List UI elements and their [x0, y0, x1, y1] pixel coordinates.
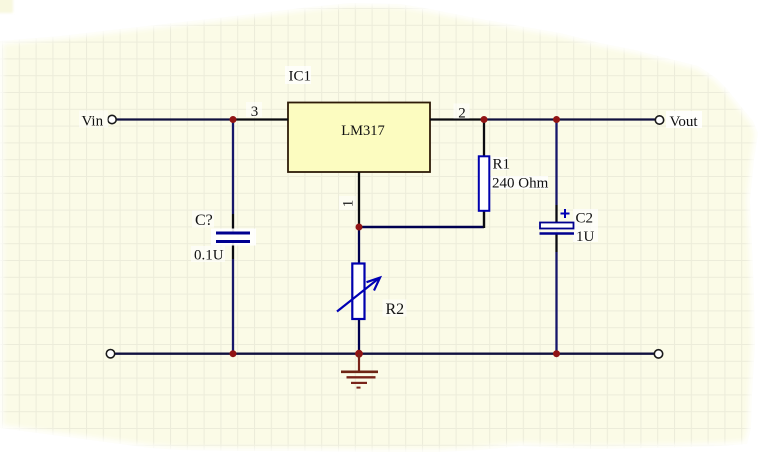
wire C2 branch vertical: [555, 120, 557, 206]
svg-text:Vout: Vout: [670, 114, 699, 130]
pin number 1 (rotated): [339, 196, 357, 210]
junction node B (pin2/R1): [481, 116, 488, 123]
svg-text:0.1U: 0.1U: [194, 248, 224, 264]
svg-text:C2: C2: [576, 211, 594, 227]
svg-text:R1: R1: [493, 157, 511, 173]
svg-text:LM317: LM317: [341, 123, 385, 139]
svg-text:2: 2: [458, 106, 466, 122]
terminal Vout: [655, 111, 702, 130]
resistor R1 240 Ohm: [479, 120, 549, 229]
svg-text:3: 3: [251, 104, 259, 120]
svg-text:IC1: IC1: [289, 69, 312, 85]
capacitor C? 0.1U: [191, 211, 256, 264]
junction node A (Vin/C1): [230, 116, 237, 123]
pin 2 (output): [430, 118, 484, 120]
pin number 3: [246, 102, 262, 120]
junction bottom C2: [553, 350, 560, 357]
terminal bottom-right: [654, 350, 662, 358]
ground: [341, 354, 378, 388]
svg-text:C?: C?: [195, 212, 213, 229]
pin number 2: [454, 104, 470, 122]
terminal bottom-left: [106, 350, 114, 358]
wire adjust node horizontal: [359, 226, 484, 228]
junction adjust node: [356, 224, 363, 231]
wire Vin to node A: [116, 118, 233, 120]
capacitor C2 1U (electrolytic): [540, 209, 599, 245]
wire C1 branch vertical: [232, 120, 234, 215]
wire node B to Vout: [484, 118, 656, 120]
potentiometer R2 (variable resistor): [337, 264, 407, 320]
svg-text:1: 1: [341, 200, 357, 208]
wire R2 bottom stub: [358, 320, 360, 354]
wire bottom rail: [114, 353, 655, 355]
junction node C (C2 top): [553, 116, 560, 123]
op-amp U1 IC1 LM317 regulator body: [288, 103, 430, 173]
junction bottom ground: [355, 350, 363, 358]
label IC1: [285, 66, 311, 85]
svg-text:1U: 1U: [576, 229, 595, 245]
wire R2 top stub: [358, 227, 360, 264]
svg-text:240 Ohm: 240 Ohm: [492, 176, 549, 192]
terminal Vin: [79, 111, 116, 130]
junction bottom C1: [230, 350, 237, 357]
svg-text:Vin: Vin: [82, 114, 104, 130]
pin 1 (adjust): [358, 172, 360, 227]
svg-text:R2: R2: [386, 301, 405, 318]
pin 3 (input): [233, 118, 288, 120]
